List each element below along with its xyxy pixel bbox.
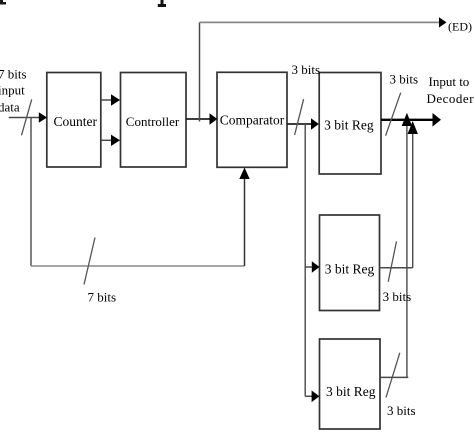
svg-text:7 bits: 7 bits bbox=[0, 67, 27, 82]
arrowhead into Comparator bottom bbox=[239, 168, 249, 180]
wire feedback up into Comparator bbox=[244, 176, 246, 266]
svg-text:Comparator: Comparator bbox=[220, 113, 285, 128]
svg-text:3 bits: 3 bits bbox=[292, 62, 321, 77]
wire branch down to Reg2 Reg3 bbox=[304, 124, 306, 396]
wire Controller to Comparator bbox=[186, 118, 211, 120]
arrowhead output to decoder bbox=[433, 113, 442, 127]
arrowhead into Reg1 bbox=[311, 118, 319, 130]
wire Comparator to Reg1 bbox=[287, 123, 313, 125]
bus slash Reg2 out bbox=[388, 241, 396, 281]
svg-text:Controller: Controller bbox=[126, 114, 180, 129]
label Input-to-Decoder bbox=[427, 74, 474, 106]
arrowhead upper bbox=[111, 94, 120, 105]
svg-text:7 bits: 7 bits bbox=[88, 290, 117, 305]
svg-text:input: input bbox=[0, 83, 25, 98]
bus slash Reg3 out bbox=[386, 353, 400, 398]
wire into Reg2 bbox=[305, 266, 313, 268]
label 7-bits-input-data bbox=[0, 67, 27, 115]
svg-text:data: data bbox=[0, 100, 20, 115]
svg-text:3 bit Reg: 3 bit Reg bbox=[324, 118, 374, 133]
arrowhead into Counter bbox=[39, 112, 47, 123]
block Controller bbox=[121, 73, 187, 168]
arrowhead Reg3 line up bbox=[402, 113, 412, 126]
svg-text:Counter: Counter bbox=[54, 114, 98, 129]
svg-text:3 bits: 3 bits bbox=[383, 289, 412, 304]
wire input-data bbox=[9, 117, 41, 119]
block Counter bbox=[47, 73, 101, 168]
svg-text:3 bit Reg: 3 bit Reg bbox=[325, 262, 375, 277]
wire feedback horizontal 7-bits bbox=[31, 265, 245, 267]
svg-text:3 bit Reg: 3 bit Reg bbox=[326, 384, 376, 399]
wire branch down from input bbox=[30, 118, 32, 267]
svg-text:Decoder: Decoder bbox=[427, 91, 474, 106]
wire ED horizontal bbox=[200, 21, 441, 23]
bus slash comparator out bbox=[295, 99, 304, 135]
arrowhead into Comparator bbox=[210, 113, 218, 125]
wire Reg2-output vertical up bbox=[412, 130, 414, 268]
wire Counter to Controller lower bbox=[101, 139, 113, 141]
cropped glyph top-left bbox=[0, 0, 6, 5]
wire into Reg3 bbox=[305, 395, 313, 397]
arrowhead Reg2 line up bbox=[408, 121, 418, 134]
cropped glyph p-descender top-middle bbox=[158, 0, 166, 7]
svg-text:3 bits: 3 bits bbox=[390, 72, 419, 87]
wire ED vertical bbox=[199, 22, 201, 121]
arrowhead into Reg2 bbox=[312, 261, 320, 273]
bus slash feedback bbox=[84, 238, 95, 285]
wire Reg3-output vertical up bbox=[406, 124, 408, 377]
block 3-bit-Reg-2 bbox=[320, 215, 380, 311]
wire Reg1 output to decoder bbox=[381, 119, 435, 121]
block 3-bit-Reg-3 bbox=[320, 339, 381, 429]
arrowhead lower bbox=[111, 135, 120, 146]
wire Counter to Controller upper bbox=[101, 99, 113, 101]
block 3-bit-Reg-1 bbox=[319, 73, 381, 175]
arrowhead ED bbox=[439, 17, 447, 27]
wire Reg2 output horizontal bbox=[379, 267, 413, 269]
svg-text:Input to: Input to bbox=[429, 74, 470, 89]
svg-text:3 bits: 3 bits bbox=[387, 403, 416, 418]
wire Reg3 output horizontal bbox=[380, 376, 408, 378]
bus slash input bbox=[22, 99, 32, 135]
block Comparator bbox=[217, 72, 287, 167]
bus slash Reg1 out bbox=[386, 93, 401, 136]
arrowhead into Reg3 bbox=[312, 391, 320, 403]
svg-text:(ED): (ED) bbox=[448, 20, 472, 34]
